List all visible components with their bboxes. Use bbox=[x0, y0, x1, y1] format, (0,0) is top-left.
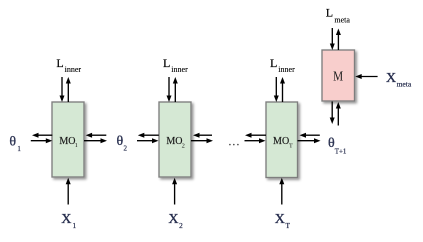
svg-text:1: 1 bbox=[75, 142, 78, 149]
svg-text:L: L bbox=[326, 5, 333, 19]
svg-text:MO: MO bbox=[59, 136, 75, 147]
svg-text:MO: MO bbox=[273, 136, 289, 147]
arrow up X_1 into MO1 bbox=[66, 178, 71, 205]
svg-text:2: 2 bbox=[124, 144, 128, 152]
svg-text:1: 1 bbox=[73, 221, 77, 230]
label theta_T+1 bbox=[328, 136, 347, 156]
label X_2 bbox=[168, 212, 183, 230]
label L_inner 1 bbox=[56, 56, 81, 74]
svg-text:L: L bbox=[56, 56, 63, 70]
ellipsis dots bbox=[229, 144, 239, 146]
arrow down L_inner2 to MO2 bbox=[167, 77, 172, 102]
label theta_1 bbox=[9, 135, 21, 154]
label X_T bbox=[275, 212, 291, 230]
svg-text:θ: θ bbox=[9, 135, 16, 150]
arrow down L_inner3 to MOT bbox=[274, 77, 279, 102]
svg-text:inner: inner bbox=[171, 65, 188, 74]
label L_inner 3 bbox=[270, 56, 295, 74]
svg-text:X: X bbox=[386, 71, 396, 86]
box MO2 bbox=[159, 102, 191, 177]
svg-text:θ: θ bbox=[117, 134, 124, 149]
box MO1 bbox=[52, 102, 84, 177]
arrow left out of MO2 right side bbox=[193, 133, 212, 138]
arrow right MO2 toward dots bbox=[191, 138, 213, 143]
arrow left out of MO1 to theta_1 bbox=[32, 133, 52, 138]
arrow left out of MOT to dots bbox=[245, 133, 266, 138]
svg-text:X: X bbox=[168, 212, 178, 227]
svg-text:meta: meta bbox=[397, 79, 412, 88]
svg-text:T+1: T+1 bbox=[335, 147, 347, 155]
arrow up MO1 to L_inner1 bbox=[66, 77, 71, 102]
box MOT bbox=[266, 102, 298, 178]
arrow left out of MOT right side bbox=[300, 133, 320, 138]
arrow left X_meta into M bbox=[355, 74, 377, 79]
svg-text:meta: meta bbox=[334, 16, 350, 25]
label L_meta bbox=[326, 5, 351, 24]
svg-text:T: T bbox=[286, 221, 291, 230]
svg-text:M: M bbox=[333, 70, 343, 85]
arrow right theta_2 into MO2 bbox=[137, 138, 159, 143]
arrow up X_T into MOT bbox=[279, 178, 284, 205]
label X_1 bbox=[61, 212, 76, 230]
arrow down M to theta_T+1 bbox=[330, 102, 335, 125]
svg-text:L: L bbox=[163, 56, 170, 70]
arrow right MOT to theta_T+1 bbox=[298, 138, 321, 143]
arrow right dots into MOT bbox=[245, 138, 266, 143]
svg-text:T: T bbox=[289, 143, 293, 150]
svg-text:X: X bbox=[275, 212, 285, 227]
label theta_2 bbox=[117, 134, 128, 152]
svg-text:2: 2 bbox=[182, 143, 185, 150]
svg-text:X: X bbox=[61, 212, 71, 227]
arrow left out of MO1 right side bbox=[86, 133, 107, 138]
svg-text:inner: inner bbox=[65, 65, 82, 74]
svg-text:MO: MO bbox=[166, 136, 182, 147]
label X_meta bbox=[386, 71, 412, 88]
arrow right theta_1 into MO1 bbox=[31, 138, 53, 143]
svg-text:inner: inner bbox=[278, 65, 295, 74]
svg-text:1: 1 bbox=[17, 145, 21, 153]
arrow up X_2 into MO2 bbox=[172, 178, 177, 205]
svg-text:L: L bbox=[270, 56, 277, 70]
arrow down L_inner1 to MO1 bbox=[60, 77, 65, 102]
box M meta-learner bbox=[322, 50, 355, 101]
arrow up M to L_meta bbox=[336, 29, 341, 51]
arrow up MO2 to L_inner2 bbox=[173, 77, 178, 102]
arrow left out of MO2 to theta_2 bbox=[138, 133, 159, 138]
arrow right MO1 to theta_2 bbox=[84, 138, 107, 143]
label L_inner 2 bbox=[163, 56, 188, 74]
arrow down L_meta to M bbox=[330, 28, 335, 50]
arrow up MOT to L_inner3 bbox=[280, 77, 285, 102]
arrow up theta_T+1 to M bbox=[336, 102, 341, 126]
svg-text:2: 2 bbox=[179, 221, 183, 230]
